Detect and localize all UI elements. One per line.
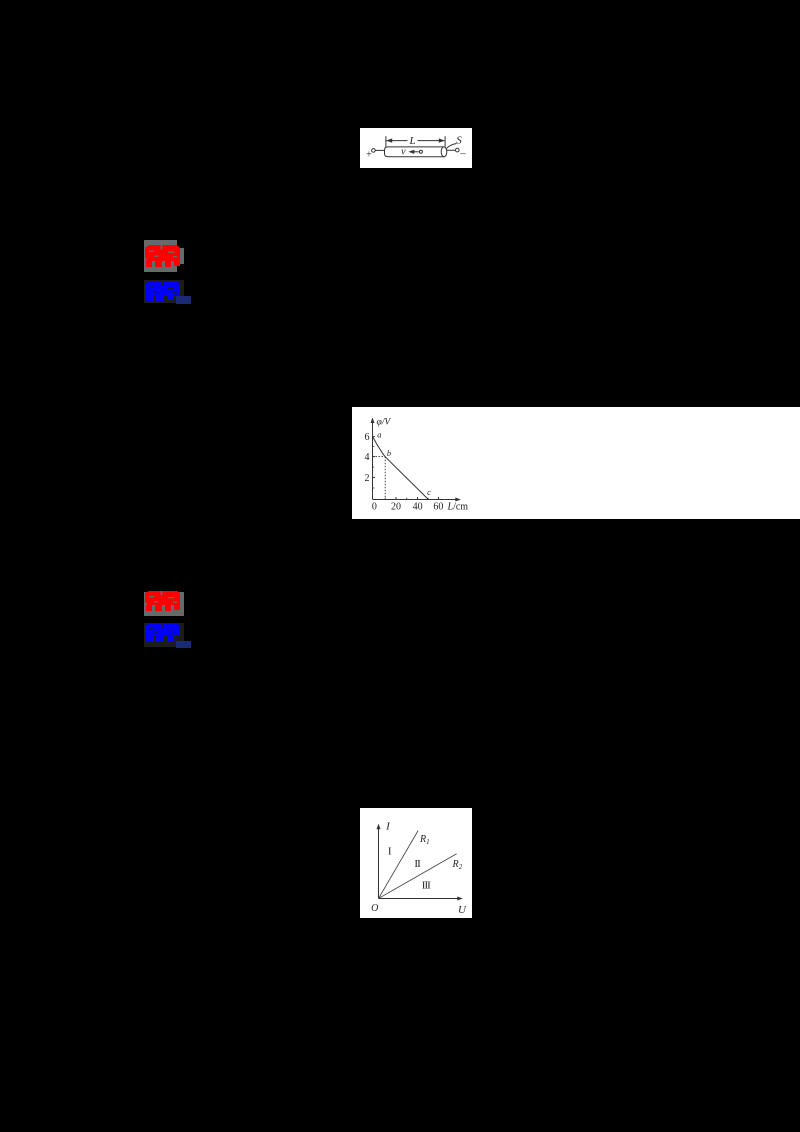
dimension bar right tick — [444, 136, 446, 147]
red answer text blob — [145, 245, 180, 261]
y-axis (phi/V) — [372, 421, 374, 500]
wire - terminal — [447, 149, 456, 151]
red answer text blob 2 — [145, 591, 180, 605]
x-axis (L/cm) — [373, 499, 458, 501]
conductor cylinder — [385, 147, 445, 157]
potential vs length graph panel — [352, 407, 800, 519]
S pointer curve — [446, 144, 457, 150]
blue analysis text blob — [145, 282, 180, 295]
svg-text:φ/V: φ/V — [377, 418, 392, 428]
figure panel: conductor drift-velocity diagram — [360, 128, 472, 168]
svg-text:–: – — [459, 148, 466, 160]
svg-text:S: S — [456, 135, 462, 147]
x-axis U — [379, 897, 460, 899]
dimension line with arrows, label L — [386, 140, 407, 142]
svg-text:+: + — [366, 150, 372, 161]
y minor ticks — [373, 446, 375, 448]
terminal circle + — [372, 149, 376, 153]
navy selection block 2 — [176, 641, 191, 649]
svg-text:c: c — [427, 487, 431, 497]
svg-text:40: 40 — [413, 502, 423, 513]
dotted guide vertical at b — [384, 457, 386, 500]
svg-text:U: U — [458, 904, 467, 916]
y tick 4 — [373, 456, 376, 458]
y tick 6 — [373, 436, 376, 438]
dimension bar left tick — [385, 136, 387, 147]
blue analysis text blob 2 — [145, 624, 180, 636]
potential curve a-b-c — [373, 436, 429, 499]
I-U characteristic graph panel — [360, 808, 472, 919]
terminal circle - — [456, 148, 460, 152]
svg-text:60: 60 — [433, 502, 443, 513]
navy selection block 1 — [176, 296, 191, 304]
svg-text:L: L — [408, 135, 415, 147]
analysis marker 2 (blue) — [144, 623, 184, 647]
analysis marker 1 (blue) — [144, 280, 184, 303]
svg-text:20: 20 — [391, 502, 401, 513]
cylinder right end face ellipse — [441, 147, 447, 157]
svg-text:4: 4 — [365, 452, 370, 463]
svg-text:v: v — [401, 147, 406, 158]
x axis ticks — [395, 497, 397, 500]
answer marker 2 (red on gray) — [144, 592, 184, 616]
answer marker 1 (red on gray) — [144, 240, 177, 272]
svg-text:b: b — [387, 448, 391, 458]
svg-text:6: 6 — [365, 432, 370, 443]
line R2 — [379, 853, 457, 898]
velocity arrow — [411, 151, 419, 153]
y-axis I — [378, 827, 380, 899]
svg-text:I: I — [388, 845, 392, 857]
svg-text:0: 0 — [372, 502, 377, 513]
wire + terminal — [375, 149, 385, 151]
svg-text:L/cm: L/cm — [447, 502, 469, 513]
charge carrier circle — [419, 150, 422, 153]
svg-text:III: III — [422, 879, 431, 891]
line R1 — [379, 830, 419, 898]
dotted guide horizontal at 4 — [373, 456, 386, 458]
svg-text:a: a — [377, 429, 381, 439]
y tick 2 — [373, 476, 376, 478]
svg-text:O: O — [371, 903, 378, 914]
svg-text:2: 2 — [365, 473, 370, 484]
